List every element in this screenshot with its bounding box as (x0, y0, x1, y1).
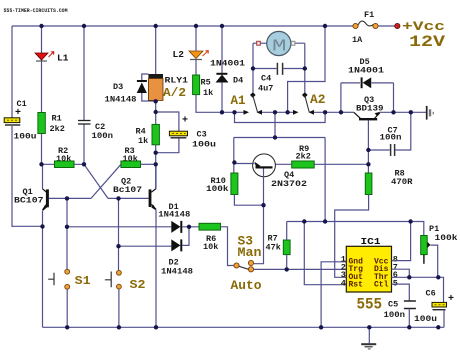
node r2-left (39, 162, 43, 166)
resistor R8 (335, 169, 414, 278)
wire vcc feeder y221 (287, 222, 424, 236)
switch S3 (231, 234, 262, 294)
svg-text:10k: 10k (203, 242, 218, 252)
node sw-left (232, 110, 236, 114)
node rail-s2 (117, 325, 121, 329)
node q3b-r9 (366, 162, 370, 166)
motor M1 (253, 31, 305, 68)
switch wire y112 (222, 111, 341, 113)
node y137 (273, 135, 277, 139)
resistor R10 (206, 173, 264, 205)
node rail-c6 (436, 325, 440, 329)
svg-text:A1: A1 (231, 94, 246, 108)
svg-text:S1: S1 (75, 274, 91, 288)
node rail-F1 (323, 24, 327, 28)
svg-text:47k: 47k (266, 243, 281, 253)
svg-text:S2: S2 (130, 278, 146, 292)
node sw-d5b (391, 110, 395, 114)
pushbutton S1 (48, 269, 90, 327)
diode D4 (210, 26, 245, 112)
diode D3 (105, 74, 156, 105)
wire Thr pin6 (392, 276, 439, 278)
svg-text:1N4148: 1N4148 (105, 95, 137, 105)
node c4-right (303, 66, 307, 70)
svg-text:BC107: BC107 (14, 196, 44, 206)
svg-text:100n: 100n (380, 133, 402, 143)
svg-text:C6: C6 (426, 289, 436, 299)
svg-text:1N4001: 1N4001 (210, 59, 245, 69)
potentiometer P1 (421, 224, 458, 277)
resistor R1 (38, 113, 65, 135)
svg-text:L1: L1 (57, 53, 69, 64)
node rly-c3 (154, 110, 158, 114)
wire base rail y227 right (67, 226, 171, 228)
svg-text:R5: R5 (201, 78, 211, 88)
node rail-q2 (154, 325, 158, 329)
svg-text:Rst: Rst (349, 281, 364, 290)
IC U1 555 (341, 236, 398, 292)
svg-text:Man: Man (238, 245, 262, 260)
wire Gnd path (321, 262, 346, 328)
LED L2 (173, 26, 209, 75)
wire Dis pin7 (392, 269, 410, 277)
node rail-L2 (194, 24, 198, 28)
wire Rst path (304, 222, 346, 285)
fuse F1 (352, 10, 400, 45)
svg-text:+: + (448, 294, 454, 305)
node rail-s1 (65, 325, 69, 329)
svg-text:IC1: IC1 (361, 236, 381, 247)
node y227-q1 (40, 224, 44, 228)
ground earth bottom (361, 327, 376, 349)
wire base rail y227 left (12, 225, 43, 227)
svg-text:1N4001: 1N4001 (348, 66, 384, 76)
svg-text:R1: R1 (52, 114, 62, 124)
node y221-325 (323, 219, 327, 223)
node q3b-c7 (366, 148, 370, 152)
transistor Q4 (235, 154, 308, 205)
node q4-e (232, 160, 236, 164)
svg-text:C3: C3 (197, 130, 207, 140)
capacitor C2 (78, 121, 113, 142)
svg-text:555-TIMER-CIRCUITS.COM: 555-TIMER-CIRCUITS.COM (4, 8, 68, 14)
wire left rail lower (11, 126, 13, 227)
svg-text:100u: 100u (14, 132, 37, 142)
pushbutton S2 (105, 270, 146, 327)
wire cross coupling X (84, 164, 121, 198)
wire S1 branch (66, 198, 68, 269)
node rail-gnd (367, 325, 371, 329)
node thr-dis (407, 275, 411, 279)
resistor R6 (199, 223, 234, 265)
svg-text:+Vcc: +Vcc (402, 19, 445, 34)
node rail-C2 (82, 24, 86, 28)
node y227-s1 (65, 225, 69, 229)
svg-text:2k2: 2k2 (296, 152, 311, 162)
svg-text:1k: 1k (138, 136, 148, 146)
svg-text:4u7: 4u7 (258, 84, 273, 94)
wire Q4 collector to S3 (254, 205, 264, 264)
capacitor C1 (4, 99, 36, 142)
resistor R2 (55, 146, 75, 168)
svg-text:100u: 100u (414, 314, 437, 324)
resistor R7 (266, 222, 291, 270)
wire S2 branch (118, 198, 120, 270)
switch A2 (293, 92, 326, 115)
svg-text:1A: 1A (352, 35, 363, 45)
svg-text:555: 555 (357, 296, 383, 314)
svg-text:Bc107: Bc107 (113, 185, 142, 195)
wire frame y137 (234, 112, 325, 221)
resistor R4 (136, 124, 160, 188)
node rail-c5 (407, 325, 411, 329)
svg-text:Ctl: Ctl (374, 281, 389, 290)
wire top rail (12, 25, 355, 27)
wire Ctl pin5 to C5 (392, 284, 410, 300)
transistor Q1 (14, 164, 91, 327)
svg-text:F1: F1 (364, 10, 374, 20)
node sw-325 (323, 110, 327, 114)
switch A1 (231, 92, 263, 115)
node sw-c7 (409, 110, 413, 114)
node sw-d4 (220, 110, 224, 114)
svg-text:A/2: A/2 (163, 86, 186, 100)
node s2-d2 (116, 244, 120, 248)
wire Vcc pin8 (392, 222, 411, 261)
node r3-right (154, 162, 158, 166)
transistor Q3 (341, 95, 426, 173)
node y221-vcc (408, 219, 412, 223)
svg-text:12V: 12V (409, 33, 445, 51)
svg-text:C4: C4 (261, 74, 271, 84)
capacitor C5 (384, 300, 416, 328)
wire left rail (11, 26, 13, 118)
svg-text:L2: L2 (173, 49, 185, 60)
LED L1 (35, 52, 69, 64)
diode D1 (158, 202, 199, 233)
svg-text:470R: 470R (391, 177, 413, 187)
resistor R5 (193, 75, 222, 112)
node c3-bot (154, 151, 158, 155)
svg-text:A2: A2 (310, 93, 326, 107)
node sw-275 (273, 110, 277, 114)
wire C2 branch (74, 26, 84, 164)
node q1-base (65, 196, 69, 200)
svg-text:2N3702: 2N3702 (271, 179, 307, 189)
wire motor bypass from rail (288, 26, 325, 112)
svg-text:M: M (272, 38, 287, 57)
wire bottom rail (43, 326, 445, 328)
node trg-r7 (285, 267, 289, 271)
svg-text:100u: 100u (192, 140, 216, 150)
svg-text:RLY1: RLY1 (165, 76, 189, 86)
node y221-rst (302, 219, 306, 223)
capacitor C4 (253, 63, 305, 94)
node rail-gnd1 (319, 325, 323, 329)
capacitor C7 (368, 112, 410, 156)
ground chassis right (427, 106, 434, 120)
svg-text:D3: D3 (113, 82, 123, 92)
svg-text:100n: 100n (92, 131, 114, 141)
svg-text:100k: 100k (206, 184, 229, 194)
node q4-c (261, 203, 265, 207)
svg-text:2k2: 2k2 (50, 124, 65, 134)
svg-text:1k: 1k (203, 88, 213, 98)
node rly-d3 (154, 99, 158, 103)
svg-text:1N4148: 1N4148 (161, 267, 193, 277)
wire R1 branch (42, 26, 55, 164)
svg-text:Auto: Auto (231, 278, 262, 293)
diode D5 (341, 57, 394, 112)
node c4-left (251, 66, 255, 70)
relay RLY1 (148, 26, 188, 124)
node rail-R1 (39, 24, 43, 28)
node d1-d2 (187, 225, 191, 229)
resistor R9 (276, 144, 369, 168)
svg-text:D4: D4 (233, 76, 243, 86)
wire switch lower bypass (235, 112, 326, 122)
svg-text:1N4148: 1N4148 (158, 210, 190, 220)
svg-text:C5: C5 (388, 300, 398, 310)
svg-text:100n: 100n (384, 310, 406, 320)
node sw-d5 (339, 110, 343, 114)
node rail-RLY (154, 24, 158, 28)
transistor Q2 (108, 164, 157, 327)
node sw-287 (285, 110, 289, 114)
node q2-base (116, 196, 120, 200)
capacitor C3 (156, 112, 216, 153)
svg-text:R4: R4 (136, 127, 146, 137)
svg-text:100k: 100k (435, 233, 458, 243)
node thr-p1 (436, 275, 440, 279)
node r2-right (82, 162, 86, 166)
svg-text:4: 4 (341, 279, 346, 289)
wire Trg rail (254, 268, 347, 270)
diode D2 (119, 227, 194, 277)
svg-text:+: + (182, 116, 188, 127)
node rail-D4 (220, 24, 224, 28)
capacitor C6 (414, 277, 454, 327)
resistor R3 (121, 146, 156, 168)
